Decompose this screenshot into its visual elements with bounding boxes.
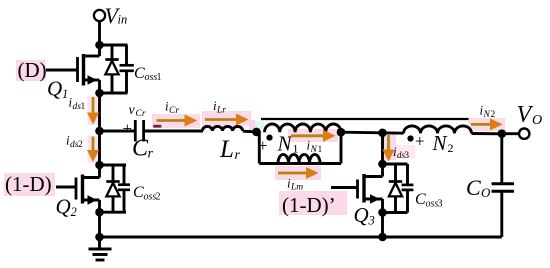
ground [89, 237, 112, 260]
current arrow iLr [205, 114, 249, 126]
current arrow iLm [278, 167, 319, 179]
label iN1 [307, 138, 323, 156]
label Q3 [354, 203, 375, 228]
label vCr [129, 103, 146, 119]
node Q3 tap [378, 129, 387, 138]
svg-text:oss: oss [426, 199, 439, 210]
wire Q2 source to ground rail [98, 212, 101, 237]
svg-text:3: 3 [438, 199, 443, 210]
node N1 right [337, 128, 346, 137]
body diode of Q1 [105, 45, 118, 93]
label iLm [287, 176, 303, 193]
svg-text:O: O [532, 113, 542, 128]
svg-text:2: 2 [78, 140, 83, 150]
highlight band iLr arrow [202, 111, 251, 126]
node A (half-bridge midpoint) [95, 127, 104, 136]
label Vin [105, 3, 128, 28]
highlight band iN2 arrow [468, 118, 505, 131]
terminal Vin [94, 10, 105, 21]
svg-text:3: 3 [405, 150, 410, 160]
terminal VO [519, 129, 529, 139]
svg-text:Lr: Lr [216, 106, 226, 116]
node output [498, 129, 507, 138]
label ids2 [66, 133, 83, 151]
svg-text:(1-D)’: (1-D)’ [282, 193, 336, 217]
svg-text:N: N [432, 131, 448, 155]
svg-text:oss: oss [144, 192, 157, 203]
label iN2 [480, 103, 496, 121]
svg-text:L: L [219, 136, 234, 163]
current arrow ids1 [87, 97, 99, 125]
svg-text:Cr: Cr [169, 106, 179, 116]
label Lr [219, 136, 241, 163]
svg-text:(1-D): (1-D) [5, 172, 52, 196]
capacitor Cr [135, 120, 143, 142]
winding N2 [404, 126, 472, 133]
label ids3 [393, 144, 410, 160]
wire Q3 source to ground rail [381, 213, 384, 238]
wire node A to Cr [100, 130, 136, 133]
node Q1 source [95, 89, 104, 98]
label (D) [16, 58, 47, 82]
wire Q3 block top rail [383, 163, 408, 166]
label iLr [213, 98, 226, 116]
label Coss3 [415, 191, 443, 210]
current arrow iN2 [471, 118, 503, 130]
wire Q1 block bottom rail [100, 92, 128, 95]
wire N1 loop right side [340, 132, 343, 163]
svg-text:C: C [466, 175, 481, 200]
current arrow iCr [157, 115, 198, 127]
label Coss2 [133, 184, 161, 203]
node B (N1 left) [252, 128, 261, 137]
svg-text:Q: Q [56, 195, 71, 219]
inductor Lr [202, 126, 242, 131]
label ids1 [69, 95, 86, 113]
label Q1 [47, 77, 68, 102]
label iCr [165, 99, 179, 117]
svg-text:3: 3 [368, 214, 375, 228]
highlight band ids3 arrow [383, 133, 415, 160]
svg-text:v: v [129, 103, 136, 118]
svg-text:+: + [415, 132, 425, 151]
transformer core line [261, 118, 469, 120]
label Coss1 [134, 65, 162, 83]
wire N1 loop bottom [259, 162, 341, 165]
svg-text:Q: Q [47, 77, 62, 101]
svg-text:1: 1 [62, 87, 68, 101]
label CO [466, 175, 491, 200]
wire Q1 source to node A [98, 93, 101, 131]
wire Vin to Q1 drain [98, 21, 101, 45]
wire Lr to node B [243, 130, 260, 134]
capacitor Coss2 [118, 165, 130, 212]
svg-text:2: 2 [491, 110, 496, 120]
highlight band ids1 arrow [88, 96, 99, 125]
svg-text:N: N [277, 132, 293, 156]
wire Q3 block bottom rail [383, 211, 408, 214]
label N1 [277, 132, 299, 156]
capacitor Coss3 [402, 164, 414, 213]
label N2 [432, 131, 454, 155]
node Q1 drain [95, 41, 104, 50]
node ground rail left [95, 233, 104, 242]
svg-text:C: C [415, 191, 426, 208]
wire N1 to Q3 tap [341, 132, 404, 133]
svg-text:2: 2 [156, 192, 161, 203]
label plus of N1 [258, 136, 268, 155]
node Q3 source [378, 208, 387, 217]
svg-text:N: N [483, 110, 491, 120]
wire N1 loop left side [258, 132, 261, 164]
highlight band ids2 arrow [88, 136, 99, 163]
svg-text:V: V [517, 102, 534, 128]
transistor Q2 [56, 165, 100, 212]
wire Q2 block top rail [100, 164, 127, 167]
wire Q1 block top rail [100, 44, 128, 47]
wire N2 to output node [472, 132, 503, 135]
wire Q2 block bottom rail [100, 211, 127, 214]
svg-text:oss: oss [145, 72, 158, 83]
wire ground rail [100, 236, 502, 239]
label VO [517, 102, 543, 128]
svg-text:C: C [132, 136, 149, 162]
current arrow ids2 [87, 137, 99, 163]
label minus of Cr [153, 125, 161, 128]
node ground rail under Q3 [378, 233, 387, 242]
label plus of N2 [415, 132, 425, 151]
svg-text:C: C [133, 184, 144, 201]
svg-text:2: 2 [71, 205, 77, 219]
wire Q3 tap to Q3 drain [381, 133, 384, 164]
svg-text:r: r [148, 147, 154, 162]
node Q3 drain [378, 160, 387, 169]
label (1-D) [4, 172, 55, 196]
highlight band iCr arrow [152, 114, 200, 128]
body diode of Q2 [106, 165, 119, 212]
svg-text:2: 2 [448, 141, 454, 155]
svg-text:1: 1 [318, 145, 323, 155]
label (1-D)' [279, 191, 347, 217]
polarity dot N2 [407, 135, 413, 141]
wire node A to Q2 drain [98, 131, 101, 165]
highlight band iLm arrow [275, 166, 321, 180]
svg-text:Q: Q [354, 203, 369, 227]
node Q2 drain [95, 161, 104, 170]
capacitor Coss1 [120, 45, 134, 93]
svg-text:Cr: Cr [136, 109, 146, 119]
transistor Q3 [331, 164, 383, 213]
label plus of Cr [123, 119, 133, 138]
current arrow iN1 [291, 130, 336, 142]
body diode of Q3 [389, 164, 402, 213]
label Q2 [56, 195, 77, 220]
wire output node to VO terminal [502, 132, 519, 135]
transistor Q1 [46, 45, 100, 93]
svg-text:1: 1 [81, 102, 86, 112]
svg-text:+: + [123, 119, 133, 138]
wire Cr to Lr [145, 130, 203, 133]
capacitor CO [492, 134, 515, 237]
polarity dot N1 [266, 135, 272, 141]
svg-text:1: 1 [157, 72, 162, 83]
winding N1 [265, 124, 341, 132]
svg-text:r: r [235, 148, 241, 163]
current arrow ids3 [383, 135, 395, 162]
svg-text:O: O [481, 185, 491, 200]
jpeg smudge near N1 core [249, 120, 264, 130]
svg-text:C: C [134, 65, 145, 82]
inductor Lm [278, 154, 320, 163]
highlight band iN1 arrow [288, 129, 338, 142]
node Q2 source [95, 208, 104, 217]
label Cr [132, 136, 154, 162]
svg-text:in: in [118, 13, 128, 27]
svg-text:(D): (D) [18, 58, 47, 82]
